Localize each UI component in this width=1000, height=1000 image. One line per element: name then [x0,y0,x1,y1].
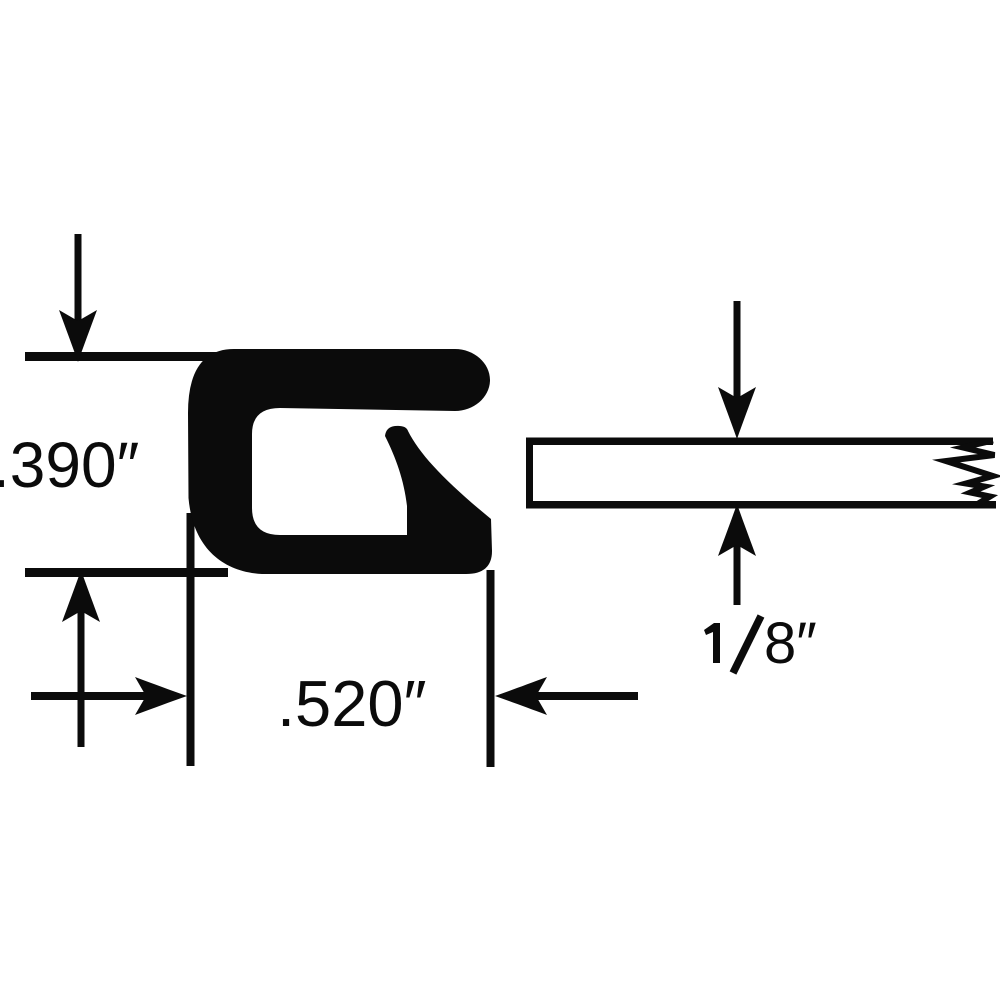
svg-text:.520″: .520″ [277,667,427,740]
svg-text:8″: 8″ [764,611,817,676]
svg-text:.390″: .390″ [0,429,139,501]
